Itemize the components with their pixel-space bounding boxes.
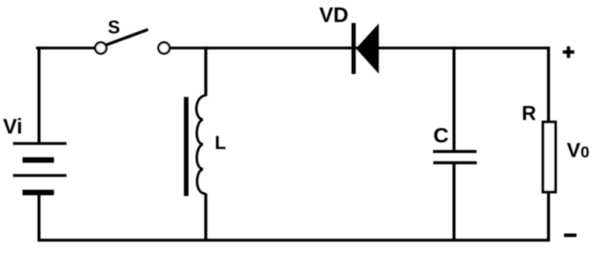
inductor core bar bbox=[184, 97, 189, 196]
svg-text:Vi: Vi bbox=[3, 116, 22, 139]
wire top right (switch to output) bbox=[170, 47, 551, 50]
wire top left (battery to switch) bbox=[36, 47, 96, 50]
wire inductor branch lower bbox=[204, 194, 207, 242]
plus terminal bbox=[563, 46, 575, 58]
wire right vertical lower bbox=[547, 192, 550, 242]
svg-text:L: L bbox=[215, 132, 226, 153]
inductor L coil bbox=[196, 95, 205, 194]
svg-text:VD: VD bbox=[319, 4, 348, 27]
svg-text:S: S bbox=[108, 16, 120, 37]
wire capacitor branch lower bbox=[453, 164, 456, 242]
battery Vi bbox=[13, 144, 67, 193]
wire bottom rail bbox=[38, 239, 551, 242]
diode VD bbox=[352, 23, 379, 74]
wire right vertical upper bbox=[547, 47, 550, 122]
minus terminal bbox=[564, 234, 577, 238]
svg-text:V0: V0 bbox=[567, 139, 590, 162]
svg-text:C: C bbox=[433, 123, 449, 147]
wire capacitor branch upper bbox=[453, 47, 456, 151]
resistor R bbox=[543, 122, 556, 192]
wire left vertical upper (top wire to battery) bbox=[38, 47, 41, 145]
wire inductor branch upper bbox=[204, 47, 207, 96]
switch S bbox=[95, 30, 169, 54]
capacitor C bbox=[433, 152, 477, 163]
wire left vertical lower (battery to bottom wire) bbox=[38, 192, 41, 242]
svg-text:R: R bbox=[522, 103, 537, 125]
